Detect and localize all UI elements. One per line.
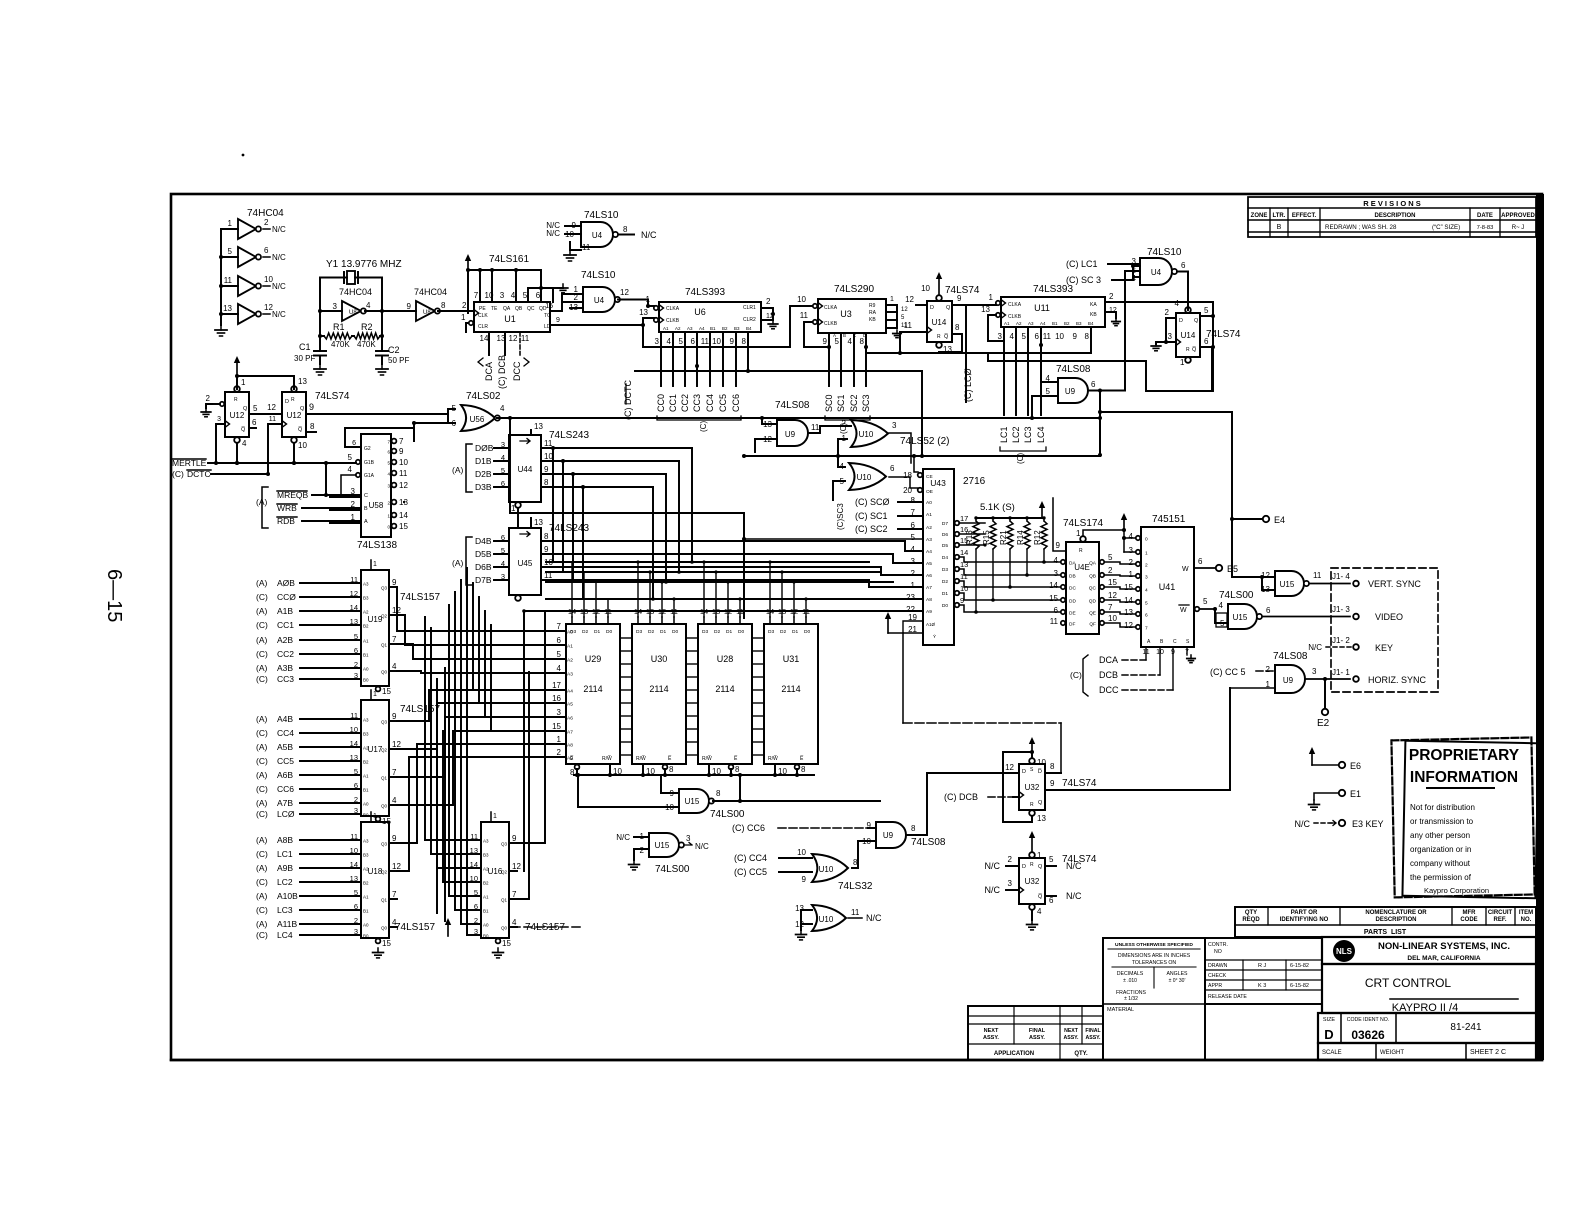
svg-text:74LS161: 74LS161	[489, 254, 529, 265]
svg-text:6: 6	[354, 902, 358, 911]
svg-text:12: 12	[1108, 591, 1117, 600]
svg-text:A4: A4	[567, 689, 573, 695]
resistor R15 5.1K	[990, 521, 996, 549]
svg-text:D7: D7	[942, 521, 948, 527]
svg-text:2: 2	[206, 394, 211, 403]
svg-text:R: R	[1079, 548, 1083, 554]
svg-text:17: 17	[552, 681, 561, 690]
U1 top pins	[474, 291, 541, 300]
svg-text:(C): (C)	[256, 849, 268, 859]
wire U19 out 9	[389, 586, 397, 588]
wire DCB stub	[504, 332, 506, 355]
svg-text:D: D	[1179, 318, 1183, 324]
svg-text:CLR: CLR	[478, 324, 488, 330]
svg-text:1: 1	[228, 219, 233, 228]
bracket DC	[1083, 655, 1088, 696]
wire 418 run	[510, 417, 1100, 419]
wire U58 out13 run	[403, 501, 405, 503]
svg-text:Q0: Q0	[381, 670, 388, 675]
drawing title box	[1322, 964, 1536, 1014]
svg-text:N/C: N/C	[985, 861, 1001, 871]
svg-text:A10B: A10B	[277, 891, 298, 901]
svg-text:6: 6	[354, 646, 358, 655]
svg-text:ASSY.: ASSY.	[983, 1035, 999, 1041]
wire U16 out 4	[509, 926, 517, 928]
svg-text:Q: Q	[1038, 864, 1043, 870]
svg-text:6: 6	[1204, 337, 1209, 346]
flip-flop U14 74LS74 (second)	[1175, 299, 1200, 367]
svg-text:A1: A1	[363, 774, 369, 779]
svg-text:E5: E5	[1227, 564, 1238, 574]
wire U10a out	[889, 433, 911, 463]
svg-text:15: 15	[1108, 578, 1117, 587]
svg-text:9: 9	[802, 875, 807, 884]
svg-text:0: 0	[1145, 537, 1148, 543]
wire U43 D7 pin	[955, 521, 960, 526]
wire U10b loop	[801, 910, 812, 930]
wire U14b clk	[1156, 341, 1176, 343]
svg-text:CLK: CLK	[478, 313, 488, 319]
svg-text:A8: A8	[567, 743, 573, 749]
and U9 74LS08 (a)	[1032, 374, 1096, 403]
nand U15 74LS00 (video)	[1219, 601, 1271, 629]
svg-text:DCC: DCC	[512, 361, 522, 381]
wire U58 to U56 riser	[413, 423, 415, 441]
nand U15 74LS00 (vert sync)	[1261, 571, 1322, 596]
svg-text:RELEASE DATE: RELEASE DATE	[1208, 994, 1247, 1000]
wire U14b qbar loop	[1146, 347, 1212, 391]
wire address A7 route	[397, 731, 565, 805]
wire U17 out 9	[389, 720, 397, 722]
wire ram 0 top stubs	[637, 562, 639, 617]
svg-text:14: 14	[1049, 581, 1058, 590]
svg-text:D2: D2	[942, 579, 948, 585]
svg-text:11: 11	[399, 469, 408, 478]
svg-text:Q̅: Q̅	[241, 426, 246, 433]
svg-text:4: 4	[1037, 907, 1042, 916]
wire U9c out	[808, 426, 851, 433]
svg-text:5: 5	[354, 632, 358, 641]
svg-text:U11: U11	[1034, 303, 1050, 313]
svg-text:8: 8	[441, 301, 446, 310]
svg-text:7: 7	[474, 291, 479, 300]
wire U17 out 4	[389, 804, 397, 806]
wire U11 r pins	[1105, 301, 1213, 303]
svg-text:7-8-83: 7-8-83	[1477, 225, 1494, 231]
wire u16 riser 7	[466, 568, 468, 935]
svg-text:74LS00: 74LS00	[710, 809, 745, 820]
svg-text:A7B: A7B	[277, 798, 293, 808]
wire u16 in link 6	[461, 923, 467, 925]
wire U30 E pin	[663, 765, 668, 770]
wire u16 in link 4	[449, 895, 467, 897]
wire U12b q run	[330, 413, 448, 415]
IC U42 74LS174	[1066, 529, 1099, 634]
svg-text:74LS08: 74LS08	[1056, 364, 1091, 375]
svg-text:9: 9	[399, 447, 404, 456]
svg-text:A1: A1	[363, 895, 369, 900]
svg-text:A8: A8	[926, 597, 932, 603]
wire data bus D7	[541, 579, 869, 581]
wire U6 out8 to U9c	[747, 332, 749, 371]
svg-text:Q3: Q3	[381, 586, 388, 591]
svg-text:5: 5	[1108, 553, 1113, 562]
svg-text:2: 2	[1108, 566, 1113, 575]
wire DCB up	[1159, 647, 1161, 675]
svg-text:N/C: N/C	[272, 310, 286, 319]
svg-text:(C) LC1: (C) LC1	[1066, 259, 1098, 269]
svg-text:11: 11	[800, 311, 809, 320]
svg-text:N/C: N/C	[272, 225, 286, 234]
svg-text:8: 8	[742, 337, 747, 346]
svg-text:2114: 2114	[781, 684, 800, 694]
svg-text:2: 2	[1145, 563, 1148, 569]
wire DCC up	[1172, 647, 1174, 690]
svg-text:74LS32: 74LS32	[838, 881, 873, 892]
wire E4 link	[1232, 518, 1262, 520]
terminal E2	[1322, 709, 1328, 715]
wire D7 stub	[959, 522, 985, 524]
wire lattice riser 0	[472, 583, 474, 690]
wire resistor top rail	[976, 517, 1044, 519]
wire U43 D2 pin	[955, 579, 960, 584]
svg-text:U29: U29	[585, 654, 602, 664]
wire DCTC run	[216, 473, 268, 475]
svg-text:9: 9	[392, 712, 397, 721]
svg-text:± .010: ± .010	[1123, 978, 1137, 984]
svg-text:U8: U8	[423, 310, 431, 316]
svg-text:12: 12	[267, 403, 276, 412]
svg-text:APPROVED: APPROVED	[1501, 213, 1535, 219]
wire E4 to U15v	[1232, 575, 1262, 577]
wire u16 riser 4	[448, 605, 450, 896]
svg-text:74LS393: 74LS393	[1033, 284, 1073, 295]
wire U14 clk	[910, 331, 927, 333]
speck	[242, 154, 245, 157]
wire U1 vcc rail	[468, 270, 541, 313]
revisions table	[1248, 197, 1536, 237]
svg-text:(A): (A)	[256, 635, 268, 645]
wire 412 link	[1100, 411, 1232, 413]
wire lattice riser 2	[484, 611, 486, 717]
wire data ladder 2	[752, 637, 764, 639]
svg-text:9: 9	[407, 302, 412, 311]
svg-text:A1: A1	[483, 895, 489, 900]
wire U9a to U4 pin5	[1125, 271, 1140, 391]
svg-text:2: 2	[354, 660, 358, 669]
svg-text:3: 3	[217, 416, 221, 423]
svg-text:Q: Q	[1194, 318, 1199, 324]
svg-text:1: 1	[241, 378, 246, 387]
svg-text:D: D	[1022, 864, 1026, 870]
svg-text:A0: A0	[483, 923, 489, 928]
wire U6 clka	[648, 305, 654, 307]
svg-text:7: 7	[557, 622, 562, 631]
wire U3 r pins	[886, 305, 897, 328]
svg-text:6: 6	[1035, 332, 1040, 341]
svg-text:N/C: N/C	[641, 230, 657, 240]
wire U42-U41 link	[1105, 623, 1135, 627]
wire U56 out	[497, 418, 510, 513]
svg-text:1: 1	[461, 313, 466, 322]
wire U58 a	[330, 522, 361, 524]
svg-text:6-15-82: 6-15-82	[1290, 983, 1309, 989]
RAM U30 2114	[632, 607, 686, 764]
wire data bus D5	[541, 553, 893, 555]
wire U9a out	[1088, 390, 1125, 392]
svg-text:A: A	[833, 333, 836, 338]
IC U3 74LS290	[813, 299, 886, 333]
svg-text:QC: QC	[527, 306, 535, 312]
svg-text:D0: D0	[738, 629, 744, 635]
wire U16 in 14	[467, 867, 481, 869]
svg-text:3: 3	[501, 572, 505, 581]
svg-text:4: 4	[557, 664, 562, 673]
svg-text:3: 3	[354, 671, 358, 680]
svg-text:U4: U4	[1151, 268, 1162, 277]
svg-text:(A): (A)	[256, 742, 268, 752]
svg-text:B3: B3	[1076, 321, 1082, 326]
wire data drop 0	[552, 448, 554, 562]
svg-text:J1- 3: J1- 3	[1332, 605, 1350, 614]
svg-text:74LS74: 74LS74	[1062, 778, 1097, 789]
svg-text:R: R	[291, 397, 295, 403]
svg-text:(C) DCTC: (C) DCTC	[623, 380, 633, 420]
svg-text:A3: A3	[567, 672, 573, 678]
svg-text:(C): (C)	[1070, 670, 1082, 680]
wire U56 in5 loop	[448, 409, 455, 423]
svg-text:4: 4	[512, 918, 517, 927]
svg-text:(C) DCB: (C) DCB	[944, 792, 978, 802]
svg-text:2: 2	[557, 748, 562, 757]
wire U30 RW pin	[642, 764, 644, 775]
svg-text:15: 15	[1124, 583, 1133, 592]
wire U18 out 7	[389, 898, 397, 900]
svg-text:A4: A4	[1040, 321, 1046, 326]
vcc arrow (res pack)	[1041, 504, 1043, 518]
svg-text:15: 15	[382, 687, 391, 696]
svg-text:C: C	[364, 493, 368, 499]
svg-text:A2: A2	[363, 610, 369, 615]
svg-text:4: 4	[242, 439, 247, 448]
svg-text:D1: D1	[942, 591, 948, 597]
svg-text:13: 13	[350, 617, 358, 626]
wire U19 out 7	[389, 643, 397, 645]
wire U6 clkb loop	[643, 318, 661, 347]
svg-text:74LS10: 74LS10	[1147, 247, 1182, 258]
svg-text:U9: U9	[883, 831, 894, 840]
svg-text:3: 3	[655, 337, 660, 346]
svg-text:D4B: D4B	[475, 536, 492, 546]
svg-text:10: 10	[399, 458, 408, 467]
svg-text:N/C: N/C	[1066, 861, 1082, 871]
wire u16 in link 5	[455, 909, 467, 911]
wire U6-U3 link	[661, 306, 800, 347]
svg-text:A3: A3	[687, 326, 693, 331]
svg-text:R9: R9	[869, 303, 876, 309]
svg-text:Q: Q	[946, 305, 951, 311]
svg-text:9: 9	[392, 578, 397, 587]
svg-text:(A): (A)	[256, 663, 268, 673]
svg-text:11: 11	[350, 832, 358, 841]
wire U1 tc to U4	[550, 302, 562, 311]
svg-text:8: 8	[1085, 332, 1090, 341]
svg-text:R/W̅: R/W̅	[768, 755, 778, 762]
svg-text:LC2: LC2	[1011, 426, 1021, 443]
svg-text:3: 3	[1008, 879, 1013, 888]
svg-text:QF: QF	[1089, 622, 1096, 628]
svg-text:74LS02: 74LS02	[466, 391, 501, 402]
svg-text:U12: U12	[287, 411, 302, 420]
wire U41 in pin 15	[1136, 587, 1140, 591]
svg-text:11: 11	[1050, 617, 1059, 626]
ground (C2)	[381, 364, 383, 369]
wire U17 out 7	[389, 776, 397, 778]
wire 513 run	[510, 513, 744, 618]
svg-text:MATERIAL: MATERIAL	[1107, 1007, 1134, 1013]
flip-flop U12 74LS74 (b)	[282, 377, 307, 450]
svg-text:D3B: D3B	[475, 482, 492, 492]
wire U16 in 13	[467, 853, 481, 855]
svg-text:DCC: DCC	[1099, 685, 1119, 695]
svg-text:G1A: G1A	[364, 473, 375, 479]
wire address A9 route	[397, 757, 565, 871]
wire U32b clk	[1006, 889, 1019, 891]
svg-text:74LS243: 74LS243	[549, 430, 589, 441]
svg-text:ASSY.: ASSY.	[1064, 1035, 1080, 1041]
wire D row 3 to U42	[959, 593, 1061, 600]
svg-text:QA: QA	[503, 306, 511, 312]
svg-text:12: 12	[901, 307, 908, 313]
svg-text:NEXT: NEXT	[984, 1028, 999, 1034]
svg-text:11: 11	[521, 334, 530, 343]
wire U42 out pin 15	[1100, 585, 1104, 589]
svg-text:Q̅: Q̅	[944, 333, 949, 340]
svg-text:B0: B0	[483, 934, 489, 939]
wire LC4 drop	[1040, 327, 1042, 415]
svg-text:4: 4	[392, 662, 397, 671]
ground (U41 s)	[1186, 647, 1188, 655]
svg-text:(A): (A)	[256, 863, 268, 873]
wire sc3 row	[866, 347, 988, 353]
svg-text:(C) SC 3: (C) SC 3	[1066, 275, 1101, 285]
svg-text:4: 4	[1010, 332, 1015, 341]
wire u16 in link 1	[431, 853, 467, 855]
svg-text:10: 10	[1037, 758, 1046, 767]
svg-text:LC3: LC3	[1023, 426, 1033, 443]
svg-text:8: 8	[669, 765, 674, 774]
svg-text:CC1: CC1	[277, 620, 294, 630]
wire R row	[320, 335, 324, 337]
svg-text:CC2: CC2	[680, 394, 690, 412]
svg-text:12: 12	[1005, 763, 1014, 772]
svg-text:5: 5	[354, 767, 358, 776]
wire U16 in 11	[467, 839, 481, 841]
svg-text:CIRCUIT: CIRCUIT	[1488, 910, 1513, 916]
svg-text:D3: D3	[702, 629, 708, 635]
svg-text:5: 5	[348, 453, 353, 462]
svg-text:B1: B1	[363, 909, 369, 914]
svg-text:W: W	[1180, 607, 1187, 614]
wire U42 in pin 6	[1061, 610, 1065, 614]
wire U41 in pin 2	[1136, 562, 1140, 566]
svg-text:74LS138: 74LS138	[357, 540, 397, 551]
svg-text:14: 14	[960, 548, 968, 557]
wire CC6 drop	[735, 332, 737, 386]
svg-text:D1: D1	[792, 629, 798, 635]
svg-text:R E V I S I O N S: R E V I S I O N S	[1363, 199, 1421, 208]
svg-text:(A): (A)	[256, 798, 268, 808]
wire address A3 route	[397, 671, 565, 673]
svg-text:B2: B2	[722, 326, 728, 331]
svg-text:DD: DD	[1069, 599, 1076, 605]
wire U42 pin9 clk	[1053, 498, 1066, 551]
svg-text:LC1: LC1	[277, 849, 293, 859]
ground (U11 r)	[1115, 318, 1117, 322]
wire U41 w out	[1194, 567, 1215, 569]
wire U42 out pin 2	[1100, 573, 1104, 577]
wire U32a q out	[1045, 789, 1230, 791]
svg-text:U15: U15	[1233, 613, 1248, 622]
svg-text:2: 2	[354, 795, 358, 804]
svg-text:DCA: DCA	[1099, 655, 1118, 665]
wire U28 E pin	[729, 765, 734, 770]
svg-text:(“C” SIZE): (“C” SIZE)	[1432, 224, 1460, 231]
wire U12 vcc	[237, 376, 294, 389]
svg-text:6: 6	[1198, 557, 1203, 566]
svg-text:1: 1	[373, 691, 377, 698]
IC U11 74LS393	[996, 297, 1105, 327]
and U9 74LS08 (horiz sync)	[1266, 665, 1317, 693]
ground (U6 clr)	[772, 320, 774, 324]
svg-text:15: 15	[399, 522, 408, 531]
svg-text:5: 5	[1022, 332, 1027, 341]
ground (U18)	[377, 948, 379, 953]
svg-text:14: 14	[350, 603, 358, 612]
svg-text:9: 9	[823, 337, 828, 346]
svg-text:4: 4	[1054, 556, 1059, 565]
vcc arrow (U12)	[236, 359, 238, 376]
inverter U2 d 74HC04	[221, 303, 286, 324]
wire ram data bus 3	[546, 598, 922, 600]
svg-text:3: 3	[333, 302, 338, 311]
svg-text:5: 5	[557, 650, 562, 659]
svg-text:U4: U4	[592, 231, 603, 240]
wire MERTLE run	[216, 462, 355, 464]
wire U15vid out	[1263, 616, 1350, 618]
wire U58 c	[330, 496, 361, 498]
svg-text:U56: U56	[470, 415, 485, 424]
svg-text:74LS74: 74LS74	[315, 391, 350, 402]
svg-text:12: 12	[1124, 621, 1133, 630]
svg-text:2: 2	[264, 218, 269, 227]
wire U12a bot	[236, 443, 238, 463]
svg-text:(A): (A)	[256, 770, 268, 780]
svg-text:QB: QB	[1089, 574, 1096, 580]
wire osc out	[365, 310, 416, 312]
svg-text:INFORMATION: INFORMATION	[1410, 769, 1518, 786]
svg-text:CLR2: CLR2	[743, 317, 756, 323]
svg-text:74LS52 (2): 74LS52 (2)	[900, 436, 949, 447]
svg-text:12: 12	[509, 334, 518, 343]
wire U11 b4 run	[990, 327, 1091, 353]
svg-text:FINAL: FINAL	[1029, 1028, 1046, 1034]
svg-text:6: 6	[557, 636, 562, 645]
svg-text:(C) CC6: (C) CC6	[732, 823, 765, 833]
RAM U29 2114	[566, 607, 620, 764]
svg-text:(C) LCØ: (C) LCØ	[963, 369, 973, 403]
tolerance block	[1103, 938, 1205, 1060]
